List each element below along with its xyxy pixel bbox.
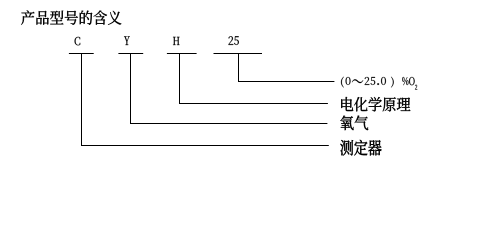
title text "产品型号的含义" bbox=[21, 10, 121, 24]
range text "0" bbox=[346, 77, 351, 85]
range text "O" bbox=[409, 77, 415, 85]
range text "5" bbox=[371, 77, 376, 85]
underline below 25 bbox=[214, 53, 263, 55]
range text "(" bbox=[341, 77, 344, 88]
range text "～" bbox=[352, 79, 363, 83]
underline below H bbox=[167, 53, 197, 55]
label text "氧气" bbox=[340, 115, 368, 130]
label text "测定器" bbox=[340, 140, 381, 156]
code letter H bbox=[173, 37, 180, 45]
wire from 25 to range label bbox=[239, 54, 335, 82]
range text "%" bbox=[402, 77, 408, 85]
code letter Y bbox=[124, 36, 130, 45]
code digit 5 of "25" bbox=[234, 36, 239, 45]
wire from Y to 氧气 label bbox=[131, 54, 328, 124]
code letter C bbox=[75, 37, 81, 45]
range text second "0" bbox=[381, 77, 386, 85]
underline below C bbox=[69, 53, 94, 55]
range text subscript "2" bbox=[415, 85, 417, 90]
product model meaning diagram bbox=[0, 0, 485, 163]
range text "2" bbox=[365, 77, 370, 85]
underline below Y bbox=[118, 53, 143, 55]
label text "电化学原理" bbox=[341, 97, 410, 111]
range text "." bbox=[377, 83, 379, 85]
range text ")" bbox=[391, 77, 394, 88]
code digit 2 of "25" bbox=[229, 36, 234, 45]
wire from C to 测定器 label bbox=[82, 54, 329, 146]
wire from H to 电化学原理 label bbox=[180, 54, 328, 104]
